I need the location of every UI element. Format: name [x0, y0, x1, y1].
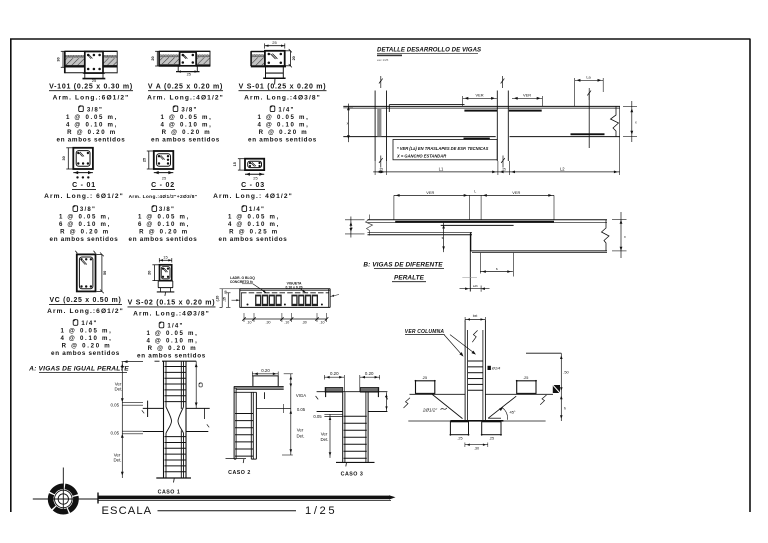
svg-text:ESCALA: ESCALA: [102, 505, 153, 517]
svg-text:C - 01: C - 01: [72, 182, 96, 189]
svg-text:20: 20: [151, 56, 155, 60]
caso 1 beam end ticks: [142, 410, 144, 413]
caso 1 0.05 lower dim lines: [122, 430, 143, 432]
detail A top bar over right column thick left segment: [464, 110, 497, 112]
caso 1 beam top right line: [186, 407, 210, 409]
caso 1 lower stirrup ticks: [165, 436, 187, 438]
caso 3 stirrup ticks: [344, 415, 367, 417]
svg-text:PERALTE: PERALTE: [394, 275, 425, 282]
dimension 30 V-101: [62, 51, 64, 67]
caso 2 top bar hook: [252, 376, 254, 387]
beam section V-101 lower formwork lines: [65, 72, 85, 74]
footing level symbol black box: [553, 385, 560, 393]
svg-text:25: 25: [162, 175, 167, 180]
detail A bottom bar at right column: [464, 138, 490, 140]
svg-text:1/4": 1/4": [278, 106, 294, 113]
detail A left column centreline mark top: [379, 76, 383, 88]
svg-text:Arm. Long.:4Ø1/2": Arm. Long.:4Ø1/2": [147, 94, 224, 101]
svg-text:.10: .10: [284, 321, 289, 325]
svg-text:Ver: Ver: [115, 381, 122, 386]
svg-text:1 @ 0.05 m,: 1 @ 0.05 m,: [60, 328, 112, 335]
svg-text:1 @ 0.05 m,: 1 @ 0.05 m,: [257, 114, 309, 121]
detail A right depth dim: [631, 101, 633, 142]
detail B shallow beam bottom line: [368, 231, 473, 233]
beam section V S-01 rebar dots: [268, 53, 271, 56]
dimension 25 C-01 bottom: [73, 172, 93, 174]
caso 2 bottom ground line: [226, 458, 247, 460]
stirrup spec C-01: [73, 205, 78, 211]
svg-text:en ambos sentidos: en ambos sentidos: [248, 136, 317, 143]
detail B step bar vertical: [469, 233, 471, 291]
detail A left depth dim: [347, 104, 349, 143]
footing left slope: [432, 394, 462, 418]
dimension 20 V S-02 left bracket: [153, 265, 155, 281]
stirrup spec for V S-01 (0.25 x 0.20 m): [270, 105, 275, 111]
detail B left break zigzag: [366, 215, 373, 236]
column section VC rebar dots: [80, 258, 82, 260]
V S-01 bottom center tick: [274, 78, 276, 84]
svg-text:Arm. Long.: 4Ø1/2": Arm. Long.: 4Ø1/2": [213, 193, 293, 200]
detail A bottom splice bar right thick: [571, 133, 605, 135]
svg-text:4 @ 0.10 m,: 4 @ 0.10 m,: [228, 221, 280, 228]
caso 3 right depth dim: [386, 392, 388, 411]
beam section V S-01 slab stipple band: [252, 54, 265, 57]
detail A bottom dim line: [373, 171, 619, 173]
svg-text:VER: VER: [523, 93, 531, 98]
footing 45 deg arc: [503, 408, 508, 420]
aligerado bottom line: [240, 306, 331, 308]
caso 3 top bar right with hook: [360, 388, 378, 393]
footing stirrup label: [488, 366, 491, 370]
footing right slope: [488, 396, 516, 418]
detail B Ldh dim: [462, 277, 477, 279]
svg-text:en ambos sentidos: en ambos sentidos: [51, 350, 120, 357]
beam section V S-01 slab hatch: [252, 57, 265, 65]
scale bar thick line: [98, 496, 389, 500]
footing ground line left: [410, 393, 466, 395]
footing right dim vertical: [560, 353, 562, 421]
footing column verticals: [464, 320, 466, 421]
footing bottom short line right: [488, 417, 501, 419]
detail B beam top second line: [368, 221, 608, 223]
caso 3 beam top line: [317, 391, 388, 393]
svg-text:.25: .25: [501, 167, 506, 171]
border frame left line: [10, 39, 12, 512]
beam section V S-02 bottom formwork: [158, 280, 173, 282]
svg-text:s: s: [442, 236, 444, 240]
svg-text:R @ 0.20 m: R @ 0.20 m: [139, 229, 189, 236]
column section VC break mark: [81, 260, 85, 264]
caso 1 right dim vertical: [195, 361, 197, 408]
svg-text:Ver: Ver: [114, 452, 121, 457]
svg-text:X = GANCHO ESTANDAR: X = GANCHO ESTANDAR: [396, 154, 446, 159]
detail B beam top line: [368, 219, 608, 221]
svg-text:VC (0.25 x 0.50 m): VC (0.25 x 0.50 m): [49, 297, 121, 304]
svg-text:en ambos sentidos: en ambos sentidos: [137, 353, 206, 360]
svg-text:4 @ 0.10 m,: 4 @ 0.10 m,: [257, 121, 309, 128]
caso 1 bottom cap: [156, 477, 191, 479]
footing column ladder rungs: [468, 360, 483, 362]
svg-text:3/8": 3/8": [159, 206, 175, 213]
svg-text:Arm. Long.: 6Ø1/2": Arm. Long.: 6Ø1/2": [44, 193, 124, 200]
svg-text:.30: .30: [302, 321, 307, 325]
svg-text:.25: .25: [379, 167, 384, 171]
svg-text:Arm. Long.:6Ø1/2": Arm. Long.:6Ø1/2": [53, 94, 130, 101]
svg-text:A: VIGAS DE IGUAL PERALTE: A: VIGAS DE IGUAL PERALTE: [28, 365, 129, 372]
svg-text:VER: VER: [426, 190, 434, 195]
detail A beam bottom line: [343, 136, 495, 138]
caso 1 beam hook left: [147, 401, 149, 417]
column section C-02 rebar dots: [158, 155, 160, 157]
caso 3 left dim vertical: [329, 414, 331, 458]
svg-text:R @ 0.20 m: R @ 0.20 m: [62, 343, 112, 350]
beam section V S-02 stirrup box: [160, 265, 172, 281]
svg-text:25: 25: [187, 71, 192, 76]
svg-text:2Ø1/2": 2Ø1/2": [422, 408, 438, 413]
beam section V S-01 stirrup box: [265, 51, 285, 66]
beam section V S-01 bottom formwork: [265, 67, 267, 78]
stirrup spec for V-101 (0.25 x 0.30 m): [79, 105, 84, 111]
footing right stub: [517, 381, 536, 394]
svg-text:.50: .50: [563, 370, 569, 375]
svg-text:Ldh: Ldh: [473, 284, 478, 288]
footing bottom slab thick line: [450, 420, 503, 422]
dimension 25 C-02 bottom: [154, 172, 174, 174]
beam section V-101 stirrup box: [85, 52, 103, 74]
caso 1 left dim horizontal: [122, 361, 143, 363]
beam section V S-01 slab outline: [251, 51, 265, 53]
svg-text:1 @ 0.05 m,: 1 @ 0.05 m,: [138, 214, 190, 221]
svg-text:V-101 (0.25 x 0.30 m): V-101 (0.25 x 0.30 m): [49, 84, 133, 91]
beam section V-101 slab hatch: [66, 58, 85, 65]
svg-text:x: x: [624, 235, 626, 239]
caso 1 beam bottom left line: [143, 431, 164, 433]
aligerado right edge: [328, 289, 330, 308]
beam section V-101 slab outline: [65, 50, 118, 52]
svg-text:en ambos sentidos: en ambos sentidos: [151, 136, 220, 143]
svg-text:0.05: 0.05: [297, 407, 306, 412]
detail B step vertical: [470, 232, 472, 251]
caso 3 beam end ticks: [316, 396, 319, 399]
dimension 15 C-03 left bracket: [239, 159, 241, 170]
svg-text:0.20: 0.20: [330, 371, 339, 376]
svg-text:Arm. Long.:4Ø3/8": Arm. Long.:4Ø3/8": [244, 94, 321, 101]
escala dash line: [158, 510, 297, 512]
svg-text:x: x: [347, 122, 349, 126]
svg-text:.25: .25: [489, 437, 494, 441]
caso 2 column verticals: [233, 386, 235, 459]
column section C-02 break mark: [159, 155, 163, 159]
detail A right column: [496, 91, 498, 162]
svg-text:3/8": 3/8": [80, 206, 96, 213]
column section C-03 rebar dots: [249, 162, 251, 164]
svg-text:1 @ 0.05 m,: 1 @ 0.05 m,: [160, 114, 212, 121]
svg-text:0.05: 0.05: [111, 431, 120, 436]
footing lower left block: [450, 422, 468, 435]
caso 1 0.05 upper dim lines: [122, 402, 143, 404]
caso 2 right dim vertical: [290, 374, 292, 455]
caso 1 beam bottom right line: [186, 431, 208, 433]
V S-02 bottom center tick: [164, 292, 167, 296]
svg-text:.15: .15: [223, 297, 227, 302]
beam section V A rebar dots: [182, 54, 185, 57]
aligerado leader line vigueta: [300, 289, 306, 293]
svg-text:30: 30: [62, 156, 66, 160]
datum crosshair vertical line: [62, 468, 64, 513]
datum crosshair horizontal line: [33, 498, 99, 500]
column section C-03 outline: [245, 159, 264, 170]
caso 1 stirrup mini symbol: [199, 383, 202, 387]
footing left stub: [416, 381, 435, 394]
caso 2 corner hook tick: [264, 392, 266, 399]
detail A right column centreline mark bottom: [501, 156, 505, 168]
svg-text:R @ 0.25 m: R @ 0.25 m: [229, 229, 279, 236]
VC top corner ticks: [75, 251, 77, 254]
svg-text:CASO 1: CASO 1: [158, 490, 181, 496]
svg-text:25: 25: [253, 175, 258, 180]
svg-text:(.20: (.20: [215, 295, 219, 301]
datum small circle: [58, 494, 68, 504]
svg-text:L: L: [474, 190, 476, 194]
svg-text:4 @ 0.10 m,: 4 @ 0.10 m,: [60, 335, 112, 342]
caso 2 bottom ticks: [234, 458, 236, 460]
dimension 25 C-02 left bracket: [148, 151, 150, 169]
caso 1 splice curve left: [166, 407, 172, 433]
title sub smudge: [377, 55, 402, 57]
svg-text:R @ 0.20 m: R @ 0.20 m: [162, 129, 212, 136]
svg-text:.30: .30: [266, 321, 271, 325]
beam section V A bottom formwork: [177, 66, 179, 72]
svg-text:1/4": 1/4": [167, 323, 183, 330]
svg-text:1 @ 0.05 m,: 1 @ 0.05 m,: [146, 330, 198, 337]
svg-text:en ambos sentidos: en ambos sentidos: [129, 236, 198, 243]
svg-text:La: La: [586, 75, 591, 80]
beam section V A slab stipple band: [160, 55, 180, 58]
beam section V S-02 break mark: [163, 268, 167, 272]
svg-text:s: s: [496, 267, 498, 271]
svg-text:Det.: Det.: [113, 458, 121, 463]
caso 3 column verticals: [342, 392, 344, 462]
caso 1 left dim vertical: [121, 362, 123, 478]
detail A left column hatch strip: [377, 108, 381, 137]
caso 1 column verticals: [163, 361, 165, 478]
detail A bar cut marker: [588, 93, 590, 148]
svg-text:x: x: [351, 226, 353, 230]
svg-text:30: 30: [57, 57, 61, 61]
stirrup spec for V A (0.25 x 0.20 m): [173, 105, 178, 111]
dimension 20 V S-01 right: [290, 51, 292, 66]
svg-text:Arm. Long.:4Ø3/8": Arm. Long.:4Ø3/8": [133, 311, 210, 318]
dimension 30 C-01 left bracket: [67, 148, 69, 169]
detail A top bar over right column thick right segment: [509, 110, 542, 112]
svg-text:6 @ 0.10 m,: 6 @ 0.10 m,: [138, 221, 190, 228]
aligerado left edge: [239, 289, 241, 308]
footing excavation bottom line: [408, 420, 545, 422]
svg-text:1/4": 1/4": [81, 320, 97, 327]
column section VC outline: [77, 254, 96, 291]
caso 3 top bar left with hook: [325, 388, 343, 393]
column section C-03 break mark: [251, 163, 255, 167]
column section C-02 outline: [154, 151, 174, 169]
svg-text:15: 15: [163, 254, 168, 259]
detail A left column: [374, 91, 376, 162]
svg-text:6 @ 0.10 m,: 6 @ 0.10 m,: [59, 221, 111, 228]
column section C-01 outline: [73, 148, 93, 169]
svg-text:R @ 0.20 m: R @ 0.20 m: [67, 129, 117, 136]
svg-text:45°: 45°: [509, 410, 515, 415]
aligerado vigueta dots: [247, 304, 249, 306]
svg-text:25: 25: [142, 158, 146, 162]
svg-text:1/4": 1/4": [249, 206, 265, 213]
svg-text:x: x: [635, 121, 637, 125]
scale bar end arrow: [389, 495, 396, 499]
detail B top bar thick: [395, 221, 554, 223]
svg-text:Det.: Det.: [320, 437, 328, 442]
beam section V A stirrup box: [180, 52, 197, 66]
footing right reference line top: [526, 352, 561, 354]
svg-text:3/8": 3/8": [181, 106, 197, 113]
svg-text:0.20: 0.20: [365, 371, 374, 376]
svg-text:V S-01 (0.25 x 0.20 m): V S-01 (0.25 x 0.20 m): [239, 84, 327, 91]
svg-text:Ver: Ver: [321, 431, 328, 436]
svg-text:CASO 3: CASO 3: [341, 471, 364, 477]
svg-text:.10: .10: [247, 321, 252, 325]
caso 1 upper stirrup ticks: [165, 366, 187, 368]
stirrup spec for VC (0.25 x 0.50 m): [73, 319, 78, 325]
svg-text:V S-02 (0.15 x 0.20 m): V S-02 (0.15 x 0.20 m): [128, 300, 216, 307]
svg-text:25: 25: [92, 78, 97, 83]
caso 1 top cap line: [162, 360, 196, 362]
svg-text:.05: .05: [223, 290, 227, 294]
aligerado left leader tick: [232, 299, 240, 301]
aligerado bottom dimension line: [244, 318, 327, 320]
beam section V A slab outline: [159, 50, 211, 52]
svg-text:4 @ 0.10 m,: 4 @ 0.10 m,: [66, 121, 118, 128]
beam section V-101 slab stipple band: [66, 55, 85, 58]
svg-text:50: 50: [103, 271, 107, 275]
border frame right line: [749, 39, 751, 512]
svg-text:4 @ 0.10 m,: 4 @ 0.10 m,: [146, 338, 198, 345]
svg-text:bxt: bxt: [473, 314, 478, 318]
detail B left depth dim: [350, 217, 352, 238]
svg-text:Arm. Long.:4Ø1/2"+2Ø3/8": Arm. Long.:4Ø1/2"+2Ø3/8": [129, 194, 198, 200]
detail A right break zigzag: [611, 106, 619, 136]
svg-text:15: 15: [233, 162, 237, 166]
svg-text:C - 03: C - 03: [241, 182, 265, 189]
detail A beam top lines: [343, 105, 620, 107]
svg-text:1 @ 0.05 m,: 1 @ 0.05 m,: [228, 214, 280, 221]
aligerado slab top lines: [240, 288, 331, 290]
svg-text:0.05: 0.05: [111, 402, 120, 407]
svg-text:B: VIGAS DE DIFERENTE: B: VIGAS DE DIFERENTE: [363, 261, 443, 268]
svg-text:20: 20: [148, 271, 152, 275]
svg-text:.25: .25: [523, 376, 528, 380]
svg-text:R @ 0.20 m: R @ 0.20 m: [60, 229, 110, 236]
border frame top line: [10, 38, 751, 40]
beam section V A slab hatch: [160, 57, 180, 64]
svg-text:20: 20: [292, 56, 296, 60]
beam section V S-01 break mark: [271, 54, 276, 59]
svg-text:Det.: Det.: [114, 387, 122, 392]
svg-text:1 @ 0.05 m,: 1 @ 0.05 m,: [59, 214, 111, 221]
svg-text:VIGA: VIGA: [296, 393, 306, 398]
dimension 25 V A: [178, 70, 182, 72]
detail A VER dim line left segment: [463, 97, 497, 99]
dimension 20 V A: [156, 51, 158, 66]
aligerado right leader tick: [330, 295, 339, 297]
detail A top bar left span with hook: [389, 104, 464, 106]
stirrup spec for V S-02 (0.15 x 0.20 m): [159, 322, 164, 328]
svg-text:.30: .30: [474, 447, 479, 451]
stirrup spec C-03: [242, 205, 247, 211]
caso 1 splice curve right: [178, 407, 184, 433]
aligerado slab dashed line: [241, 292, 329, 294]
svg-text:Ver: Ver: [297, 428, 304, 433]
datum circle hatched ring: [51, 486, 76, 511]
svg-text:3/8": 3/8": [87, 106, 103, 113]
svg-text:C - 02: C - 02: [151, 182, 175, 189]
column section C-01 rebar dots: [77, 152, 79, 154]
detail B right break zigzag: [602, 220, 610, 251]
svg-text:R @ 0.20 m: R @ 0.20 m: [259, 129, 309, 136]
svg-text:en ambos sentidos: en ambos sentidos: [50, 236, 119, 243]
footing right break squiggle: [540, 395, 546, 405]
footing leader arrows ver columna: [444, 335, 462, 356]
beam section V-101 rebar dots: [87, 54, 90, 57]
svg-text:VER: VER: [476, 93, 484, 98]
dimension 25 C-03 bottom: [245, 173, 264, 175]
caso 2 beam top lines: [234, 385, 284, 387]
column section C-01 break mark: [79, 152, 83, 156]
svg-text:en ambos sentidos: en ambos sentidos: [57, 136, 126, 143]
footing 45 deg angle arrow: [499, 406, 504, 411]
detail A VER dim line right segment: [512, 97, 542, 99]
svg-text:Ø1/4: Ø1/4: [491, 366, 501, 371]
footing left break squiggle: [404, 398, 411, 408]
detail A left column centreline mark bottom: [379, 156, 383, 168]
svg-text:VER COLUMNA: VER COLUMNA: [405, 329, 445, 335]
svg-text:.25: .25: [457, 437, 462, 441]
detail B inner dim horizontal: [480, 271, 513, 273]
C-01 bottom dots: [76, 176, 78, 178]
svg-text:L2: L2: [560, 166, 565, 171]
scale bar thin underline: [98, 500, 391, 502]
beam section V S-02 rebar dots: [162, 267, 164, 269]
caso 1 beam top left line: [143, 407, 164, 409]
svg-text:.10: .10: [320, 321, 325, 325]
svg-text:1 @ 0.05 m,: 1 @ 0.05 m,: [66, 114, 118, 121]
detail B step dim vertical: [443, 223, 445, 252]
footing column break squiggle: [472, 330, 477, 342]
svg-text:V A (0.25 x 0.20 m): V A (0.25 x 0.20 m): [148, 84, 223, 91]
svg-text:esc 1/25: esc 1/25: [377, 58, 389, 62]
footing lower right block: [482, 422, 501, 435]
footing dim 30: [465, 444, 488, 446]
svg-text:L1: L1: [439, 166, 444, 171]
detail B middle bar: [441, 224, 514, 226]
svg-text:.25: .25: [422, 376, 427, 380]
svg-text:DETALLE DESARROLLO DE VIGAS: DETALLE DESARROLLO DE VIGAS: [377, 47, 481, 54]
svg-text:Det.: Det.: [296, 433, 304, 438]
datum inner circle: [55, 490, 73, 508]
beam section V-101 break mark: [87, 55, 91, 59]
detail B right depth dim: [620, 212, 622, 258]
caso 3 beam bottom lines: [317, 411, 343, 413]
stirrup spec C-02: [152, 205, 157, 211]
dimension 50 VC right bracket: [101, 254, 103, 291]
caso 2 stirrup ticks: [235, 413, 253, 415]
detail A right column centreline mark top: [501, 76, 505, 88]
